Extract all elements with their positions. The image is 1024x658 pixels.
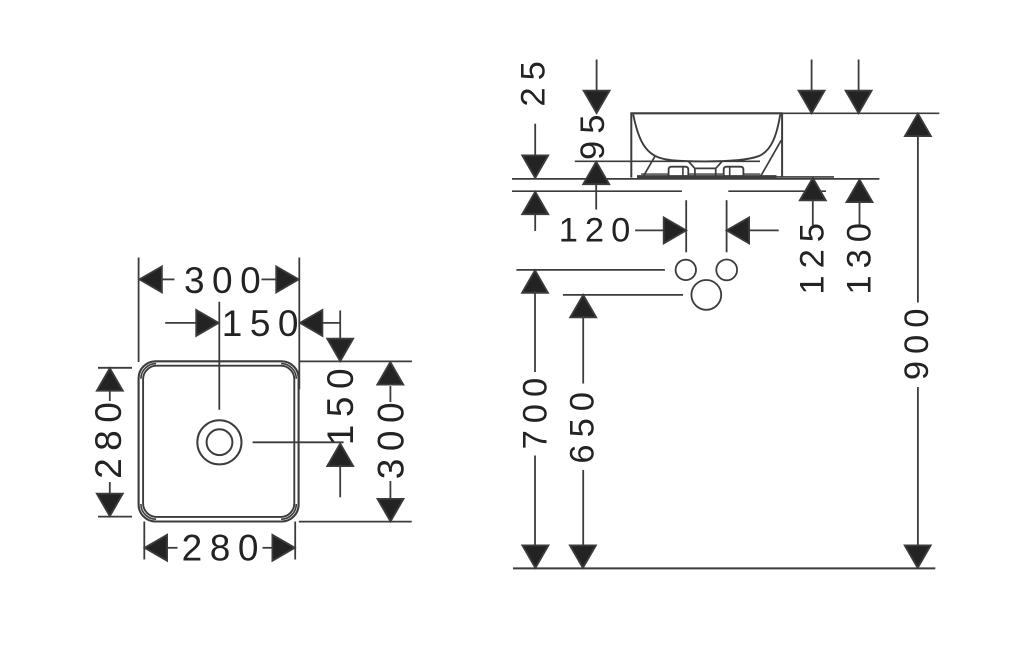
dim 650 (drain height) — [563, 295, 601, 568]
svg-text:150: 150 — [222, 303, 306, 344]
leader line to faucet holes (y=269.9) — [516, 269, 665, 271]
foot right — [724, 167, 744, 177]
dim 125 — [793, 60, 831, 295]
dim 120 (faucet hole spacing) — [559, 200, 779, 252]
extension line top-right horizontal (y=361.4) — [299, 360, 412, 362]
faucet hole circle left — [676, 260, 696, 280]
dim 300 right — [371, 362, 412, 521]
top extension line to 900 dim — [783, 112, 940, 114]
corner arc bottom-right — [281, 504, 296, 519]
counter top line (y=178.9) — [512, 178, 879, 180]
drain trapezoid legs — [695, 168, 716, 176]
dim 900 (rim height) — [898, 114, 936, 568]
dim 95 (bowl depth) — [574, 60, 612, 210]
dim 150 top — [165, 303, 341, 344]
svg-text:300: 300 — [371, 395, 412, 479]
corner arc top-left — [141, 364, 156, 379]
svg-text:650: 650 — [563, 385, 601, 464]
dim 130 — [840, 60, 878, 295]
dim 25 (counter thickness) — [514, 54, 552, 231]
drain outer circle — [197, 420, 241, 464]
basin outer rim (rounded square) — [139, 361, 299, 521]
pedestal slant line right — [761, 140, 782, 176]
thick baseline under basin — [637, 175, 777, 179]
svg-text:130: 130 — [840, 216, 878, 295]
faucet hole circle right — [716, 260, 737, 281]
dim 150 right — [320, 311, 361, 498]
basin inner rim (rounded square) — [143, 366, 294, 517]
svg-text:125: 125 — [793, 216, 831, 295]
basin right edge — [781, 113, 783, 177]
centerline vertical into square — [218, 302, 220, 410]
basin left edge — [630, 113, 632, 177]
svg-text:150: 150 — [320, 361, 361, 445]
extension line bottom-right horizontal (y=521.6) — [299, 521, 412, 523]
basin top edge — [630, 112, 782, 114]
counter bottom line right segment — [728, 190, 826, 192]
dim 280 bottom — [144, 522, 295, 569]
extension line right (x=299.3) — [298, 258, 300, 390]
svg-text:280: 280 — [88, 395, 129, 479]
corner arc bottom-left — [141, 504, 156, 519]
svg-text:700: 700 — [517, 371, 555, 450]
svg-text:280: 280 — [182, 527, 266, 568]
counter line right extension (y=176.9) — [777, 176, 835, 178]
floor line — [513, 567, 935, 569]
drain hole circle — [691, 280, 721, 310]
pedestal slant line left — [643, 156, 655, 176]
svg-text:900: 900 — [898, 302, 936, 381]
foot right inner line — [729, 167, 731, 177]
dim 700 (faucet height) — [517, 270, 555, 568]
bowl underside line / 95 extension (y=161.3) — [575, 160, 760, 162]
drain leader line to right — [253, 441, 344, 443]
drain inner circle — [207, 429, 233, 455]
basin inner bowl curve — [633, 114, 780, 161]
dim 280 left — [88, 368, 132, 517]
foot left inner line — [682, 167, 684, 177]
extension line left (x=138.6) — [138, 258, 140, 363]
svg-text:25: 25 — [514, 54, 552, 106]
svg-text:300: 300 — [184, 260, 268, 301]
drain trapezoid under bowl — [689, 162, 722, 169]
counter bottom line left segment (y=191.2) — [512, 190, 682, 192]
foot left — [669, 167, 689, 177]
svg-text:120: 120 — [559, 212, 638, 250]
pedestal underside line y174 — [641, 173, 760, 175]
corner arc top-right — [281, 364, 296, 379]
svg-text:95: 95 — [574, 108, 612, 160]
leader line to drain hole (y=294.9) — [563, 294, 683, 296]
dim 300 top — [139, 260, 298, 301]
